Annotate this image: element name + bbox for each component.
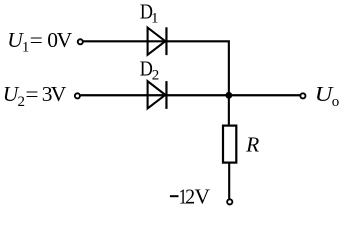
svg-text:o: o xyxy=(332,94,340,110)
svg-text:R: R xyxy=(245,133,259,157)
svg-text:V: V xyxy=(195,184,211,208)
svg-text:=: = xyxy=(30,28,43,52)
svg-text:=: = xyxy=(25,82,38,106)
svg-text:1: 1 xyxy=(151,10,159,26)
svg-text:2: 2 xyxy=(152,68,160,84)
